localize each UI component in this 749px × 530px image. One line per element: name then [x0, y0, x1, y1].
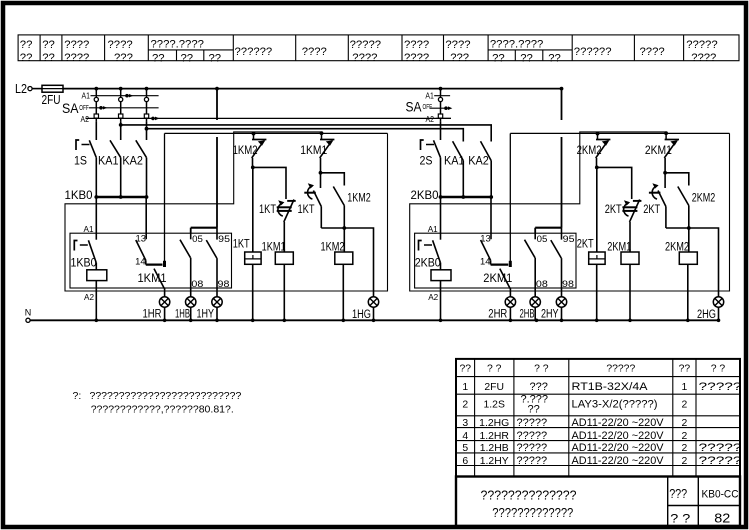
svg-text:???: ???	[530, 381, 548, 393]
svg-text:??: ??	[520, 52, 533, 64]
wire: neutral bus N	[30, 319, 718, 321]
timer contact 1KT (delayed closing)	[259, 200, 315, 253]
lamp 1HG	[368, 297, 378, 307]
svg-text:1HB: 1HB	[175, 306, 190, 320]
KB0 switch body outline (2KB0)	[415, 233, 576, 288]
wire: riser to 2KM1 aux contact	[509, 133, 511, 261]
svg-text:95: 95	[218, 233, 230, 244]
svg-text:1HR: 1HR	[143, 306, 162, 320]
svg-text:2KM2: 2KM2	[692, 190, 716, 204]
svg-text:??: ??	[528, 404, 540, 416]
svg-text:???: ???	[114, 52, 133, 64]
relay contact KA1 (left)	[98, 121, 121, 196]
svg-text:????: ????	[445, 39, 470, 51]
lamp 2HG	[713, 297, 723, 307]
svg-text:2KT: 2KT	[577, 237, 594, 251]
svg-text:?????: ?????	[699, 442, 742, 454]
title block	[456, 477, 740, 527]
relay contact KA2 (right)	[468, 141, 491, 196]
svg-text:? ?: ? ?	[670, 511, 690, 525]
svg-text:1KB0: 1KB0	[71, 256, 97, 270]
svg-text:14: 14	[480, 256, 491, 267]
contactor aux contact 1KM1 (to 1HR lamp)	[138, 269, 167, 298]
svg-text:??: ??	[42, 39, 55, 51]
contactor coil 2KM1	[607, 240, 639, 321]
svg-text:2: 2	[682, 431, 688, 442]
svg-text:OFF: OFF	[423, 102, 433, 111]
enclosure boundary 1KB0 unit	[65, 132, 388, 291]
svg-text:2KM1: 2KM1	[645, 143, 672, 157]
svg-text:??????: ??????	[574, 46, 612, 58]
svg-text:?????: ?????	[517, 417, 548, 429]
wire: feed from bus to 1KB0 aux contacts	[216, 89, 218, 120]
wire: feedback line from 13/14 (2)	[510, 132, 729, 134]
timer contact 2KT (delayed closing)	[605, 200, 661, 253]
svg-text:A2: A2	[428, 292, 438, 302]
svg-text:????: ????	[640, 46, 665, 58]
svg-text:N: N	[25, 307, 32, 318]
svg-text:??????: ??????	[235, 46, 273, 58]
svg-text:?????: ?????	[350, 39, 381, 51]
contactor coil 1KM2	[321, 228, 353, 320]
svg-text:??????????????????????????: ??????????????????????????	[90, 390, 242, 402]
svg-text:???: ???	[450, 52, 469, 64]
KB0 aux contact 95/98 (2)	[551, 228, 575, 298]
legend header table	[18, 35, 739, 61]
svg-text:1KM2: 1KM2	[347, 190, 371, 204]
svg-text:??: ??	[20, 39, 33, 51]
svg-text:2KT: 2KT	[643, 202, 660, 216]
svg-text:2: 2	[682, 418, 688, 429]
timer coil 2KT	[577, 167, 605, 320]
KB0 switch body outline (1KB0)	[70, 233, 232, 288]
svg-text:2HR: 2HR	[488, 306, 507, 320]
svg-text:AD11-22/20 ~220V: AD11-22/20 ~220V	[572, 430, 665, 442]
lamp 1HY	[212, 297, 222, 307]
svg-text:OFF: OFF	[79, 103, 89, 112]
KB0 aux contact 13/14 (2)	[480, 197, 510, 267]
svg-text:95: 95	[563, 233, 575, 244]
contactor aux contact 2KM2 (seal-in)	[597, 133, 599, 139]
svg-text:2KM2: 2KM2	[665, 240, 689, 254]
svg-text:1KM1: 1KM1	[300, 143, 327, 157]
svg-text:?:: ?:	[73, 390, 82, 402]
svg-text:????: ????	[404, 52, 429, 64]
svg-text:A1: A1	[84, 224, 94, 234]
KB0 aux contact 13/14 (1)	[135, 197, 164, 267]
svg-text:KB0-CC: KB0-CC	[702, 489, 739, 501]
enclosure boundary 2KB0 unit	[410, 132, 730, 291]
svg-text:2HB: 2HB	[520, 306, 535, 320]
svg-text:2: 2	[682, 456, 688, 467]
svg-text:??: ??	[42, 52, 55, 64]
svg-text:??: ??	[492, 52, 505, 64]
fuse 2FU	[42, 85, 63, 92]
svg-text:?????????????: ?????????????	[492, 505, 573, 520]
relay contact KA2 (left)	[122, 121, 146, 196]
svg-text:1HG: 1HG	[352, 307, 371, 321]
svg-text:?????: ?????	[699, 455, 742, 467]
svg-text:1.2HB: 1.2HB	[480, 443, 509, 454]
svg-text:5: 5	[462, 443, 468, 454]
svg-text:2HG: 2HG	[697, 307, 716, 321]
wire: main bus	[63, 88, 562, 90]
svg-text:A1: A1	[425, 92, 434, 101]
svg-text:A2: A2	[84, 292, 94, 302]
svg-text:1: 1	[462, 382, 468, 393]
svg-text:1KM1: 1KM1	[262, 240, 286, 254]
svg-text:2KM2: 2KM2	[577, 143, 602, 157]
svg-text:????????????,??????80.81?.: ????????????,??????80.81?.	[91, 404, 234, 416]
svg-text:????: ????	[404, 39, 429, 51]
lamp 2HB	[530, 297, 540, 307]
svg-text:1KM2: 1KM2	[233, 143, 258, 157]
svg-text:??: ??	[679, 364, 691, 375]
svg-text:SA: SA	[406, 100, 423, 115]
svg-text:RT1B-32X/4A: RT1B-32X/4A	[572, 381, 649, 393]
svg-text:1.2HR: 1.2HR	[479, 431, 509, 442]
svg-text:2FU: 2FU	[42, 93, 61, 107]
wire: feed from bus to 2KB0 aux contacts	[561, 89, 563, 120]
svg-text:????: ????	[691, 52, 716, 64]
svg-text:1HY: 1HY	[197, 306, 215, 320]
lamp 2HR	[505, 297, 515, 307]
junction dots on main bus	[94, 87, 98, 91]
svg-text:4: 4	[462, 431, 468, 442]
svg-text:?????: ?????	[517, 455, 548, 467]
svg-text:KA1: KA1	[444, 153, 465, 167]
svg-text:L2: L2	[15, 82, 27, 96]
svg-text:2KB0: 2KB0	[411, 188, 439, 202]
svg-text:1.2HG: 1.2HG	[479, 418, 509, 429]
wire: KA common bus (right)	[441, 196, 492, 198]
switch 2KB0 main contact and coil	[415, 197, 451, 320]
svg-text:1KT: 1KT	[259, 202, 276, 216]
svg-text:2: 2	[682, 400, 688, 411]
contactor aux contact 1KM2 (accelerating)	[321, 173, 371, 228]
svg-text:?????: ?????	[699, 381, 742, 393]
svg-text:1.2S: 1.2S	[484, 400, 505, 411]
wire: riser to 1KM1 aux contact	[164, 133, 166, 261]
svg-text:14: 14	[135, 256, 146, 267]
svg-text:1KM1: 1KM1	[138, 271, 167, 285]
svg-text:2S: 2S	[420, 153, 433, 167]
svg-text:KA2: KA2	[468, 153, 489, 167]
svg-text:1KM2: 1KM2	[321, 240, 345, 254]
contactor aux contact 1KM2 (seal-in)	[253, 133, 255, 139]
switch 1KB0 main contact and coil	[71, 197, 107, 320]
wire: rejoin to 2KM2 coil and 2HG lamp	[666, 228, 719, 297]
wire: interlock line A (KA1 left to KA2 right)	[121, 125, 492, 142]
lamp 1HR	[159, 297, 169, 307]
svg-text:05: 05	[192, 233, 203, 244]
svg-text:1KB0: 1KB0	[65, 188, 93, 202]
svg-text:?????: ?????	[517, 442, 548, 454]
svg-text:6: 6	[462, 456, 468, 467]
junction dots on neutral bus	[95, 319, 99, 323]
relay contact KA1 (right)	[444, 141, 465, 196]
wire: feedback line from 13/14 (1)	[165, 132, 388, 134]
svg-text:??: ??	[181, 52, 194, 64]
svg-text:AD11-22/20 ~220V: AD11-22/20 ~220V	[572, 417, 665, 429]
svg-text:2HY: 2HY	[541, 306, 559, 320]
timer contact 1KT (delayed opening NC)	[304, 168, 321, 229]
svg-text:98: 98	[562, 278, 574, 289]
svg-text:82: 82	[714, 511, 730, 526]
svg-text:KA2: KA2	[122, 153, 143, 167]
svg-text:2KM1: 2KM1	[607, 240, 631, 254]
wire: 1KM2 aux to 1KT contact	[253, 167, 286, 199]
svg-text:??????????????: ??????????????	[481, 488, 577, 503]
timer contact 2KT (delayed opening NC)	[649, 168, 666, 229]
svg-text:1KT: 1KT	[298, 202, 315, 216]
wire: L2 to fuse	[32, 88, 42, 90]
svg-text:??: ??	[152, 52, 165, 64]
svg-text:AD11-22/20 ~220V: AD11-22/20 ~220V	[572, 442, 665, 454]
KB0 aux contact 05/08 (1)	[180, 233, 203, 297]
svg-text:????: ????	[108, 39, 133, 51]
svg-text:08: 08	[536, 278, 548, 289]
svg-text:2FU: 2FU	[484, 382, 504, 393]
svg-text:2KT: 2KT	[605, 202, 622, 216]
lamp 2HY	[556, 297, 566, 307]
KB0 aux contact 95/98 (1)	[206, 228, 230, 298]
svg-text:1: 1	[682, 382, 688, 393]
notes	[73, 390, 242, 416]
wire: rejoin to 1KM2 coil and 1HG lamp	[321, 228, 373, 297]
svg-text:2KB0: 2KB0	[415, 256, 441, 270]
svg-text:??: ??	[548, 52, 561, 64]
KB0 aux contact 05/08 (2)	[525, 233, 548, 297]
wire: interlock line B (KA2 left to KA1 right)	[147, 129, 464, 142]
svg-text:98: 98	[218, 278, 230, 289]
timer coil 1KT	[233, 167, 261, 320]
svg-text:A2: A2	[426, 115, 435, 124]
switch contact 2S	[420, 121, 441, 196]
svg-text:??: ??	[209, 52, 222, 64]
svg-text:A1: A1	[428, 224, 438, 234]
svg-text:2: 2	[462, 400, 468, 411]
svg-text:3: 3	[462, 418, 468, 429]
svg-text:LAY3-X/2(?????): LAY3-X/2(?????)	[572, 399, 658, 411]
svg-text:A2: A2	[81, 115, 90, 124]
svg-text:1KT: 1KT	[233, 237, 250, 251]
svg-text:SA: SA	[62, 101, 79, 116]
svg-text:?????: ?????	[606, 364, 635, 375]
svg-text:05: 05	[537, 233, 548, 244]
svg-text:08: 08	[191, 278, 203, 289]
svg-text:??: ??	[20, 52, 33, 64]
svg-text:????.????: ????.????	[151, 39, 204, 51]
svg-text:????: ????	[64, 39, 89, 51]
svg-text:????.????: ????.????	[490, 39, 543, 51]
switch contact 1S	[74, 121, 96, 196]
svg-text:A1: A1	[82, 92, 91, 101]
svg-text:???: ???	[669, 486, 687, 501]
svg-text:????: ????	[302, 46, 327, 58]
lamp 1HB	[186, 297, 196, 307]
svg-text:2KM1: 2KM1	[483, 271, 512, 285]
svg-text:??: ??	[460, 364, 472, 375]
contactor coil 2KM2	[665, 228, 697, 320]
svg-text:? ?: ? ?	[711, 364, 726, 375]
contactor aux contact 2KM1	[665, 133, 667, 139]
contactor aux contact 2KM2 (accelerating)	[665, 173, 715, 228]
wire: KA common bus (left)	[96, 196, 146, 198]
selector switch SA (right)	[406, 89, 453, 124]
svg-text:2: 2	[682, 443, 688, 454]
selector switch SA (left)	[62, 89, 451, 124]
svg-text:?????: ?????	[517, 430, 548, 442]
contactor aux contact 1KM1	[321, 133, 323, 139]
svg-text:AD11-22/20 ~220V: AD11-22/20 ~220V	[572, 455, 665, 467]
svg-text:1S: 1S	[74, 153, 87, 167]
svg-text:? ?: ? ?	[534, 364, 549, 375]
svg-text:????: ????	[352, 52, 377, 64]
svg-text:? ?: ? ?	[487, 364, 502, 375]
contactor aux contact 2KM1 (to 2HR lamp)	[483, 269, 512, 298]
parts list table	[456, 359, 740, 477]
wire: 2KM2 aux to 2KT contact	[597, 167, 632, 199]
svg-text:?????: ?????	[686, 39, 717, 51]
svg-text:1.2HY: 1.2HY	[480, 456, 509, 467]
svg-text:KA1: KA1	[98, 153, 119, 167]
contactor coil 1KM1	[262, 240, 294, 321]
svg-text:????: ????	[64, 52, 89, 64]
